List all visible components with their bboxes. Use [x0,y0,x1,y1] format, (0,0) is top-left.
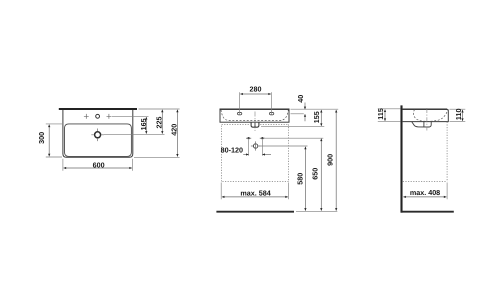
dimension 600 ext lines [62,159,64,171]
svg-text:420: 420 [170,124,179,136]
ext 115 bottom [378,121,401,123]
dimension 600 [64,167,132,169]
svg-text:max. 408: max. 408 [410,188,440,197]
svg-text:115: 115 [376,108,385,120]
svg-text:165: 165 [139,118,148,130]
tap hole circle [96,114,100,118]
dimension 280 ext lines [239,92,241,114]
ext from dot to 650 [264,137,323,139]
dimension 115 [384,110,386,121]
svg-text:650: 650 [311,168,320,180]
centerline front [254,112,256,132]
svg-text:40: 40 [296,95,305,103]
basin inner rim rounded rect [65,124,132,156]
svg-text:600: 600 [93,160,105,169]
dimension 80-120 ext lines [248,140,250,156]
drain trap divider [254,122,256,127]
max 584 ext lines [220,183,222,200]
floor line side [401,211,454,213]
basin side top edge accent [403,108,447,110]
back wall thick edge [59,108,137,110]
ext floor level right [296,210,337,212]
ext from connection to 580 [259,145,308,147]
drain symbol [95,132,101,138]
svg-text:300: 300 [37,132,46,144]
ext tap hole level (40) [291,113,304,115]
basin front top edge accent [220,108,290,110]
ext lines right of plan [139,108,180,110]
basin front outline [220,109,289,122]
tap hole cross right [107,114,112,119]
dimension 155 [320,110,322,126]
dimension 280 [240,93,271,95]
ext 115 top [378,108,401,110]
dimension 900 [335,110,337,211]
centerline side [426,108,428,131]
drain trap front [251,122,259,127]
dimension 420 [176,110,178,157]
ext max408 right [446,183,448,200]
dimension max 584 [222,196,288,198]
dimension 40 outside arrows [304,103,306,110]
fixing dot left [246,137,251,139]
wall line [400,105,402,212]
tap hole oval left [237,112,241,115]
dimension 650 [320,139,322,211]
cabinet dashed side [403,122,447,182]
svg-text:580: 580 [295,173,304,185]
svg-text:155: 155 [312,111,321,123]
svg-text:900: 900 [326,154,335,166]
svg-text:110: 110 [454,108,463,120]
ext 110 bottom [450,121,466,123]
cabinet clearance dashed box front [222,124,289,181]
dimension 110 [462,110,464,121]
svg-text:max. 584: max. 584 [240,188,270,197]
svg-text:80-120: 80-120 [221,145,243,154]
basin outer outline [63,110,133,157]
basin interior dashed [221,110,288,121]
svg-text:280: 280 [250,85,262,94]
tap hole oval right [269,112,273,115]
dimension 165 [145,117,147,134]
floor line front [216,211,294,213]
dimension 80-120 arrows outside [243,154,248,156]
basin side outline [403,109,449,121]
dimension 580 [304,147,306,211]
dimension 225 [161,110,163,134]
trap side [412,122,431,127]
basin side bowl dashed [413,110,447,122]
ext cabinet top level (155) [261,126,324,128]
dimension 300 ext lines [46,123,62,125]
water connection symbol [253,144,257,148]
ext basin top right long (900/40) [291,108,339,110]
dimension 300 [48,125,50,157]
tap hole cross left [84,114,89,119]
svg-text:225: 225 [155,117,164,129]
fixing dot right [260,137,265,139]
dimension max 408 [403,196,446,198]
ext 110 top [450,108,466,110]
